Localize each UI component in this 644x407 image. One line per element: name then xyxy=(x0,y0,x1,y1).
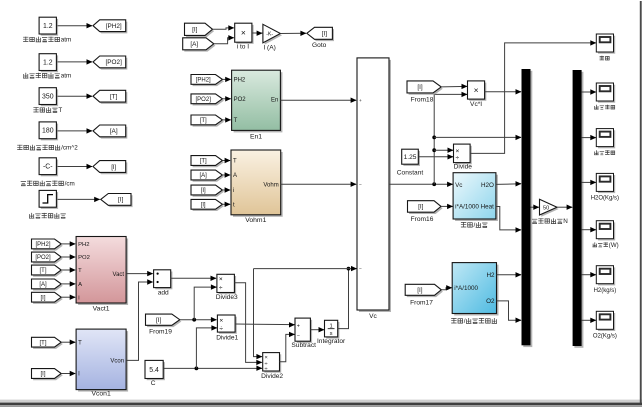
svg-text:1.2: 1.2 xyxy=(43,23,53,30)
svg-text:Subtract: Subtract xyxy=(291,342,316,349)
svg-text:×: × xyxy=(474,85,479,95)
svg-text:/cm: /cm xyxy=(65,180,75,187)
svg-text:H2: H2 xyxy=(486,272,495,279)
svg-text:T: T xyxy=(234,118,238,124)
svg-text:×: × xyxy=(241,28,246,38)
svg-text:Heat: Heat xyxy=(481,204,495,211)
svg-text:×: × xyxy=(219,318,223,325)
svg-text:Vohm: Vohm xyxy=(263,182,278,188)
svg-text:Integrator: Integrator xyxy=(317,338,346,345)
svg-text:×: × xyxy=(219,276,223,283)
svg-text:I (A): I (A) xyxy=(263,45,275,52)
svg-text:Vact1: Vact1 xyxy=(93,306,110,313)
svg-text:[I]: [I] xyxy=(40,295,45,301)
svg-text:÷: ÷ xyxy=(219,326,223,333)
svg-text:C: C xyxy=(151,380,156,387)
svg-text:Vc: Vc xyxy=(455,182,462,189)
svg-text:÷: ÷ xyxy=(219,285,223,292)
svg-text:(W): (W) xyxy=(609,242,619,249)
svg-text:Constant: Constant xyxy=(397,169,424,176)
svg-text:i: i xyxy=(233,188,234,194)
svg-text:-C-: -C- xyxy=(43,164,53,171)
svg-text:En1: En1 xyxy=(250,133,262,140)
svg-text:+: + xyxy=(359,99,362,104)
svg-text:[PH2]: [PH2] xyxy=(106,23,122,30)
svg-text:PH2: PH2 xyxy=(78,242,89,248)
svg-text:From18: From18 xyxy=(411,97,434,104)
svg-text:−: − xyxy=(359,267,362,272)
svg-text:T: T xyxy=(233,159,237,165)
svg-text:350: 350 xyxy=(42,94,54,101)
svg-text:Vcon: Vcon xyxy=(110,359,124,365)
svg-text:[I]: [I] xyxy=(156,317,162,324)
svg-text:÷: ÷ xyxy=(456,155,460,162)
svg-text:/cm^2: /cm^2 xyxy=(61,145,78,152)
svg-text:[I]: [I] xyxy=(417,84,423,91)
svg-text:180: 180 xyxy=(42,128,54,135)
svg-text:[I]: [I] xyxy=(201,188,206,194)
svg-text:atm: atm xyxy=(61,36,71,43)
svg-text:/: / xyxy=(464,318,466,325)
svg-text:N: N xyxy=(563,218,568,225)
svg-text:PH2: PH2 xyxy=(234,78,246,84)
svg-text:En: En xyxy=(271,98,278,104)
svg-text:[A]: [A] xyxy=(190,41,198,48)
svg-text:−: − xyxy=(297,333,300,339)
svg-text:5.4: 5.4 xyxy=(149,367,159,374)
svg-text:[I]: [I] xyxy=(40,372,45,378)
svg-text:H2(kg/s): H2(kg/s) xyxy=(594,288,617,294)
svg-text:[l]: [l] xyxy=(201,203,206,209)
svg-text:A: A xyxy=(78,282,82,288)
svg-text:[A]: [A] xyxy=(39,282,47,288)
svg-text:atm: atm xyxy=(61,73,71,80)
svg-text:A: A xyxy=(233,173,237,179)
svg-text:i*A/1000: i*A/1000 xyxy=(454,285,478,292)
svg-text:[I]: [I] xyxy=(118,197,124,204)
svg-text:[I]: [I] xyxy=(192,27,198,34)
svg-text:[A]: [A] xyxy=(200,173,208,179)
svg-text:Vcon1: Vcon1 xyxy=(91,390,110,397)
svg-text:[l]: [l] xyxy=(111,164,116,171)
svg-text:-K-: -K- xyxy=(266,31,273,37)
svg-text:i to I: i to I xyxy=(237,44,250,51)
svg-text:+: + xyxy=(297,323,300,329)
svg-text:[PO2]: [PO2] xyxy=(106,59,123,66)
svg-text:Divide2: Divide2 xyxy=(261,373,283,380)
svg-text:s: s xyxy=(330,331,333,337)
svg-text:[A]: [A] xyxy=(110,128,118,135)
svg-text:[T]: [T] xyxy=(110,94,118,101)
svg-text:T: T xyxy=(58,107,62,114)
svg-text:50: 50 xyxy=(543,205,549,211)
svg-text:T: T xyxy=(78,268,82,274)
svg-text:From17: From17 xyxy=(410,299,433,306)
svg-text:[T]: [T] xyxy=(40,340,47,346)
svg-text:Vc*I: Vc*I xyxy=(470,101,482,108)
svg-text:[I]: [I] xyxy=(322,31,328,38)
svg-text:O2: O2 xyxy=(486,298,495,305)
svg-text:Goto: Goto xyxy=(312,42,327,49)
svg-text:Vohm1: Vohm1 xyxy=(245,217,266,224)
svg-text:T: T xyxy=(78,340,82,346)
svg-text:/: / xyxy=(474,222,476,229)
svg-text:1.25: 1.25 xyxy=(404,154,417,161)
svg-text:Divide1: Divide1 xyxy=(216,335,238,342)
svg-text:PO2: PO2 xyxy=(78,255,90,261)
svg-text:÷: ÷ xyxy=(265,367,268,373)
svg-text:i*A/1000: i*A/1000 xyxy=(455,204,479,211)
svg-text:[I]: [I] xyxy=(417,287,423,294)
svg-text:Vc: Vc xyxy=(369,313,377,320)
svg-text:Divide3: Divide3 xyxy=(216,294,238,301)
svg-text:[T]: [T] xyxy=(200,159,207,165)
svg-text:From16: From16 xyxy=(411,216,434,223)
svg-text:H2O(Kg/s): H2O(Kg/s) xyxy=(591,196,619,202)
svg-text:[PO2]: [PO2] xyxy=(196,97,212,103)
svg-text:[PH2]: [PH2] xyxy=(35,242,50,248)
svg-text:[I]: [I] xyxy=(418,204,424,211)
svg-text:add: add xyxy=(158,289,169,296)
svg-text:−: − xyxy=(359,183,362,188)
svg-text:[PO2]: [PO2] xyxy=(35,255,51,261)
svg-text:Divide: Divide xyxy=(454,164,473,171)
svg-text:1.2: 1.2 xyxy=(43,60,53,67)
svg-text:[T]: [T] xyxy=(200,118,207,124)
svg-text:PO2: PO2 xyxy=(234,97,247,103)
svg-text:[T]: [T] xyxy=(40,268,47,274)
svg-text:Vact: Vact xyxy=(113,272,125,278)
svg-text:From19: From19 xyxy=(149,329,172,336)
svg-text:O2(Kg/s): O2(Kg/s) xyxy=(593,333,617,339)
svg-text:[PH2]: [PH2] xyxy=(196,78,211,84)
svg-text:H2O: H2O xyxy=(481,182,494,189)
